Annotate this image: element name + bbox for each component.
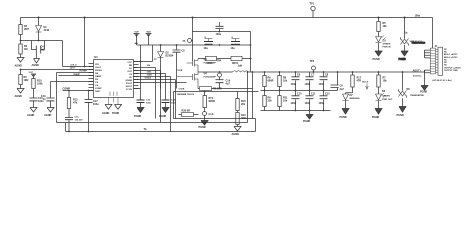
svg-text:(AT-28-07-03 L.Bo): (AT-28-07-03 L.Bo): [433, 79, 452, 82]
svg-text:PWR IN: PWR IN: [383, 47, 391, 49]
svg-text:GNDB: GNDB: [126, 80, 133, 82]
svg-text:4148: 4148: [44, 29, 50, 32]
svg-text:PGND: PGND: [420, 90, 427, 93]
svg-text:RAMP: RAMP: [95, 75, 102, 78]
svg-text:PGND: PGND: [112, 112, 119, 115]
svg-text:AOUT+: AOUT+: [413, 69, 422, 72]
svg-text:100n: 100n: [171, 103, 177, 105]
svg-text:FB 10R: FB 10R: [213, 88, 222, 91]
svg-text:C18: C18: [171, 100, 176, 102]
svg-text:AGND: AGND: [232, 133, 240, 136]
svg-text:10k: 10k: [383, 80, 388, 83]
svg-text:VCC: VCC: [29, 72, 34, 74]
svg-text:100k: 100k: [37, 83, 43, 86]
svg-text:47k: 47k: [73, 102, 78, 105]
svg-text:PGND: PGND: [399, 58, 406, 61]
svg-text:SMBJ6.0CA: SMBJ6.0CA: [410, 40, 423, 43]
svg-text:100u: 100u: [291, 102, 297, 105]
svg-text:10k: 10k: [147, 65, 151, 67]
svg-text:RB: RB: [129, 65, 133, 67]
svg-text:RAMP: RAMP: [74, 73, 81, 76]
svg-text:BUS-1 +4VDC: BUS-1 +4VDC: [444, 53, 458, 56]
svg-text:4u7: 4u7: [226, 83, 231, 86]
svg-text:C15: C15: [75, 117, 80, 119]
svg-text:COMP: COMP: [63, 88, 71, 91]
svg-text:TMMBVATM8: TMMBVATM8: [410, 94, 424, 97]
svg-text:100u: 100u: [319, 102, 325, 105]
svg-text:C6: C6: [297, 74, 301, 77]
svg-text:TP1: TP1: [310, 3, 315, 6]
svg-text:C11: C11: [311, 93, 316, 96]
svg-text:C7: C7: [311, 74, 315, 77]
svg-text:AA: AA: [182, 39, 186, 42]
svg-text:D6: D6: [407, 88, 411, 91]
svg-text:100u: 100u: [93, 103, 99, 106]
svg-text:Z2: Z2: [154, 59, 157, 61]
svg-text:VDD: VDD: [146, 31, 151, 33]
svg-text:SS: SS: [95, 79, 98, 81]
svg-text:C16: C16: [146, 100, 151, 102]
svg-text:HCCS: HCCS: [362, 81, 369, 83]
svg-text:Q2: Q2: [204, 72, 208, 75]
svg-text:LD: LD: [129, 68, 132, 70]
svg-text:AGND: AGND: [27, 114, 35, 117]
svg-text:PLR3305NP: PLR3305NP: [204, 76, 217, 78]
svg-text:NC: NC: [444, 65, 448, 67]
svg-text:D7: D7: [350, 94, 354, 97]
svg-text:C12: C12: [325, 93, 330, 96]
svg-text:CS: CS: [129, 74, 133, 76]
svg-text:10k: 10k: [283, 100, 288, 103]
svg-text:C8: C8: [325, 74, 329, 77]
svg-text:100R: 100R: [147, 74, 153, 76]
svg-text:PGND: PGND: [303, 120, 310, 123]
svg-text:10k: 10k: [283, 80, 288, 83]
svg-text:NOUT: NOUT: [126, 86, 133, 88]
svg-text:AB: AB: [135, 42, 139, 45]
svg-text:TP2: TP2: [310, 60, 315, 63]
svg-text:VIN: VIN: [95, 64, 99, 66]
svg-text:1uH: 1uH: [238, 64, 243, 67]
svg-text:MBRS340: MBRS340: [350, 97, 361, 100]
svg-text:R30 0R: R30 0R: [182, 110, 191, 113]
svg-text:AGND: AGND: [44, 114, 52, 117]
svg-text:10u: 10u: [231, 47, 236, 50]
svg-text:PWR OUT: PWR OUT: [382, 99, 393, 101]
svg-text:680R: 680R: [268, 80, 274, 83]
svg-text:102 2kV: 102 2kV: [75, 120, 84, 122]
svg-text:C5: C5: [182, 50, 186, 53]
svg-text:47R: 47R: [357, 80, 362, 83]
svg-text:PGND: PGND: [373, 58, 380, 61]
svg-text:OUTPUT +24VDC: OUTPUT +24VDC: [444, 66, 462, 69]
svg-text:4u7: 4u7: [340, 88, 345, 91]
svg-text:BZX84: BZX84: [166, 55, 174, 58]
svg-text:PGND: PGND: [159, 115, 166, 118]
svg-text:C10: C10: [297, 93, 302, 96]
svg-text:30k1: 30k1: [241, 117, 247, 120]
svg-text:VCP: VCP: [134, 31, 139, 33]
svg-text:POUT: POUT: [126, 83, 133, 85]
svg-text:VCCN: VCCN: [126, 89, 133, 91]
svg-text:AGND: AGND: [102, 112, 110, 115]
svg-text:U1: U1: [94, 55, 98, 59]
svg-text:0R15: 0R15: [207, 62, 214, 65]
svg-text:RX/SN: RX/SN: [95, 70, 102, 72]
svg-text:C3UE: C3UE: [179, 89, 185, 91]
svg-text:GREEN: GREEN: [382, 96, 390, 98]
svg-text:100n: 100n: [216, 33, 222, 36]
svg-text:100u: 100u: [305, 83, 311, 86]
svg-text:10k: 10k: [383, 25, 388, 28]
svg-text:100k: 100k: [147, 71, 153, 73]
svg-text:AOUT(-): AOUT(-): [413, 75, 422, 78]
svg-text:12V+: 12V+: [70, 67, 76, 70]
svg-text:TA: TA: [144, 128, 147, 131]
svg-text:RAMP: RAMP: [80, 70, 88, 73]
svg-text:UVLO: UVLO: [95, 67, 101, 69]
svg-text:GNDA: GNDA: [145, 76, 152, 79]
svg-text:1M2: 1M2: [24, 79, 29, 82]
svg-text:GND: GND: [95, 91, 100, 93]
svg-text:TDRMMA 750370: TDRMMA 750370: [177, 93, 195, 96]
svg-text:100u: 100u: [305, 102, 311, 105]
svg-text:PGND: PGND: [372, 116, 379, 119]
svg-text:1M: 1M: [24, 48, 27, 51]
svg-text:PGND: PGND: [199, 126, 206, 129]
svg-text:CS-: CS-: [95, 85, 99, 87]
svg-text:100u: 100u: [291, 83, 297, 86]
svg-text:22k: 22k: [268, 100, 273, 103]
svg-text:100n: 100n: [415, 15, 421, 18]
svg-text:PGND: PGND: [397, 114, 404, 117]
svg-text:10u: 10u: [204, 47, 209, 50]
svg-text:C2UE: C2UE: [177, 70, 183, 72]
svg-text:OUT: OUT: [127, 71, 132, 73]
svg-text:OUTPUT GND: OUTPUT GND: [444, 70, 458, 72]
svg-text:20k: 20k: [241, 103, 246, 106]
svg-text:CxA: CxA: [209, 113, 214, 116]
svg-text:2M7: 2M7: [24, 28, 29, 31]
svg-text:100u: 100u: [319, 83, 325, 86]
svg-text:PGND: PGND: [134, 115, 141, 118]
svg-text:SR08: SR08: [209, 100, 216, 103]
svg-text:1u: 1u: [405, 32, 408, 35]
svg-text:PGND: PGND: [340, 116, 347, 119]
svg-text:100n: 100n: [146, 103, 152, 105]
svg-text:1n: 1n: [43, 98, 46, 101]
svg-text:CS: CS: [95, 82, 99, 84]
svg-text:TPA: TPA: [217, 60, 222, 63]
svg-text:GREEN: GREEN: [383, 44, 391, 46]
svg-text:D3: D3: [383, 39, 387, 42]
svg-text:J1: J1: [435, 45, 438, 48]
svg-text:VD: VD: [129, 77, 132, 79]
svg-text:2u2: 2u2: [41, 49, 46, 52]
svg-text:D4: D4: [382, 90, 386, 93]
svg-text:AGND: AGND: [32, 64, 40, 67]
svg-text:SN: SN: [95, 73, 98, 75]
svg-text:AGND: AGND: [15, 65, 23, 68]
svg-text:AGND: AGND: [15, 95, 23, 98]
svg-text:COMP: COMP: [95, 88, 102, 90]
svg-text:VCC: VCC: [127, 62, 132, 64]
